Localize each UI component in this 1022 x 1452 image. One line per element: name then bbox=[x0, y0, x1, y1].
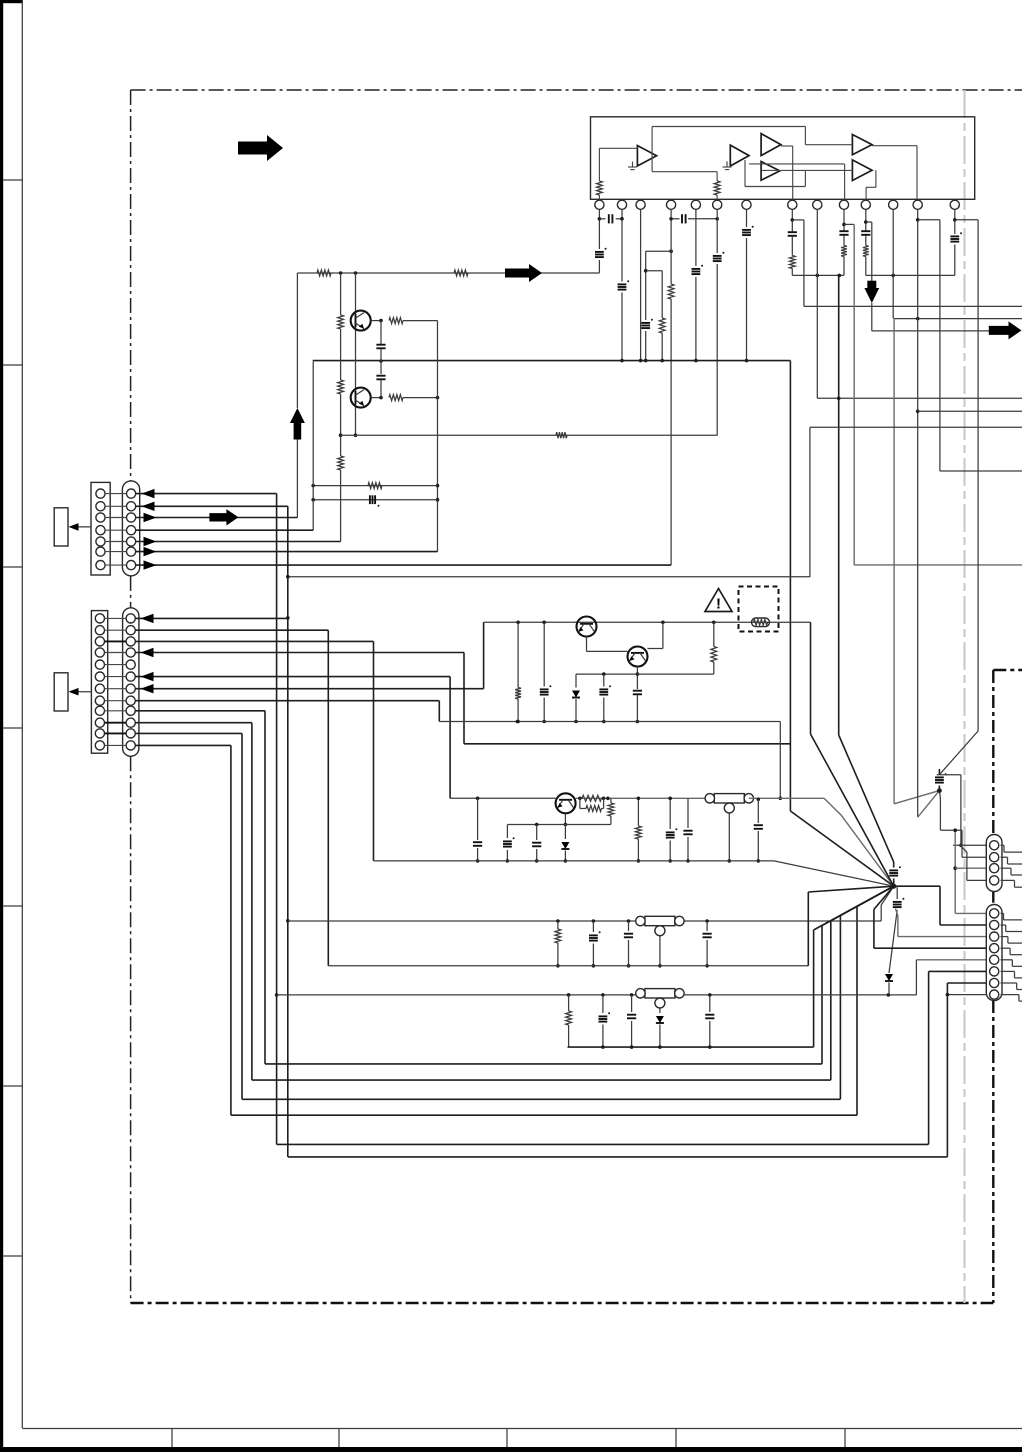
svg-text:!: ! bbox=[716, 596, 721, 613]
